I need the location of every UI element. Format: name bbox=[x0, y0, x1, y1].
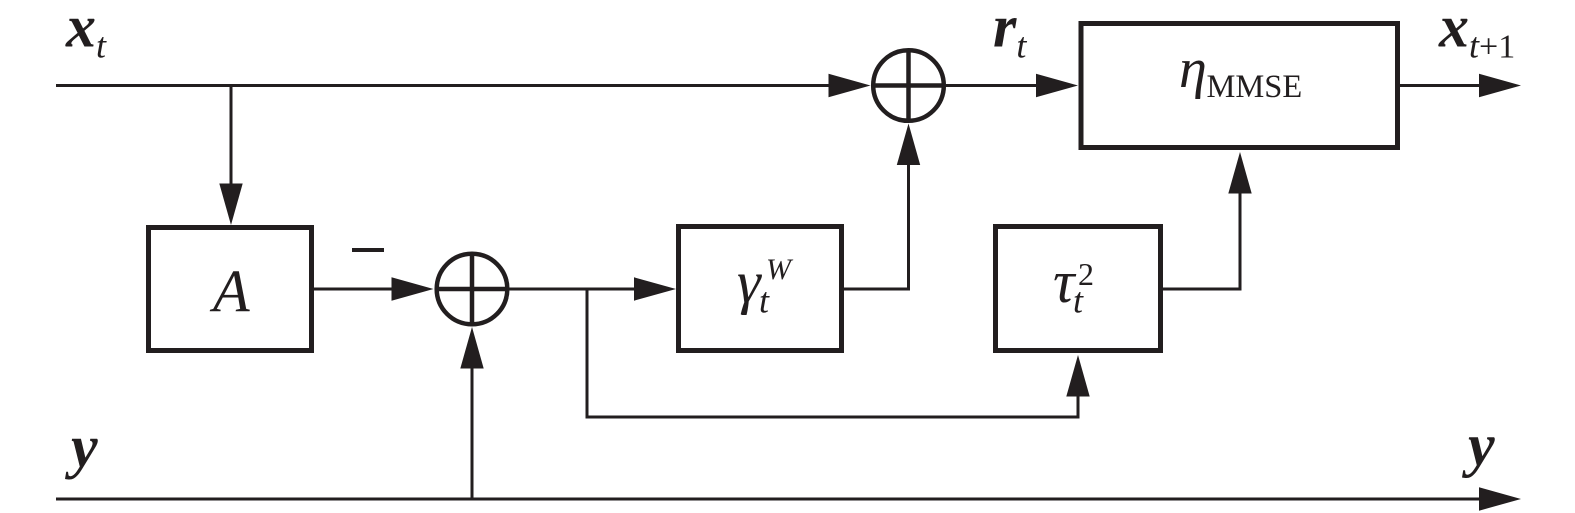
arrowhead into adder2 from y line bbox=[460, 327, 483, 369]
wire: branch down from node to tau feed line bbox=[587, 289, 1078, 417]
wire: bottom y line bbox=[56, 498, 1486, 501]
adder node S2 (lower summation circle) bbox=[437, 254, 508, 325]
minus sign at adder2 input bbox=[352, 248, 384, 252]
wire: adder1 output to eta block bbox=[945, 84, 1042, 87]
adder node S1 (upper summation circle) bbox=[873, 50, 944, 121]
arrowhead output y right bbox=[1479, 487, 1521, 510]
arrowhead into adder2 from A bbox=[392, 277, 434, 300]
wire: tau output up to eta block bottom bbox=[1163, 160, 1240, 289]
svg-text:η: η bbox=[1179, 38, 1207, 100]
wire: adder2 to gamma block bbox=[509, 288, 640, 291]
arrowhead into tau block from below bbox=[1066, 355, 1089, 397]
arrowhead into eta block bottom bbox=[1228, 152, 1251, 194]
wire: A output to adder2 bbox=[314, 288, 398, 291]
arrowhead output x_{t+1} bbox=[1479, 74, 1521, 97]
svg-text:t: t bbox=[759, 281, 770, 321]
block A box bbox=[149, 228, 312, 351]
wire: gamma output up to adder1 bbox=[844, 130, 909, 289]
svg-text:W: W bbox=[766, 253, 794, 286]
arrowhead into block A bbox=[219, 184, 242, 226]
wire: top x_t line from left to adder1 bbox=[56, 84, 836, 87]
svg-text:A: A bbox=[209, 259, 250, 325]
wire: branch down from top line to block A bbox=[230, 86, 233, 191]
block eta box bbox=[1081, 24, 1398, 148]
block tau box bbox=[996, 227, 1161, 351]
arrowhead into gamma block bbox=[634, 277, 676, 300]
svg-text:t: t bbox=[1073, 281, 1084, 321]
block gamma box bbox=[679, 227, 842, 351]
arrowhead into eta block bbox=[1036, 74, 1078, 97]
arrowhead into adder1 from top line bbox=[829, 74, 871, 97]
wire: eta output to x_{t+1} bbox=[1400, 84, 1486, 87]
arrowhead into adder1 from gamma bbox=[897, 124, 920, 166]
svg-text:MMSE: MMSE bbox=[1207, 69, 1303, 105]
wire: y branch up to adder2 bbox=[471, 334, 474, 499]
